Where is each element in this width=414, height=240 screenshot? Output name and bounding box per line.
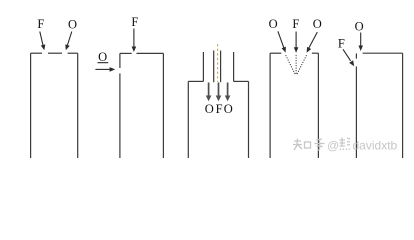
svg-text:O: O xyxy=(269,17,278,31)
svg-text:O: O xyxy=(355,20,364,34)
svg-text:davidxtb: davidxtb xyxy=(353,139,398,153)
svg-text:F: F xyxy=(131,15,138,29)
svg-text:F: F xyxy=(37,17,44,31)
svg-text:O: O xyxy=(313,17,322,31)
svg-text:@: @ xyxy=(327,139,339,153)
svg-text:F: F xyxy=(338,37,345,51)
svg-text:O: O xyxy=(68,17,77,31)
svg-text:F: F xyxy=(216,102,223,116)
svg-text:O: O xyxy=(205,102,214,116)
svg-text:F: F xyxy=(292,17,299,31)
svg-text:O: O xyxy=(224,102,233,116)
svg-text:O: O xyxy=(98,50,107,64)
